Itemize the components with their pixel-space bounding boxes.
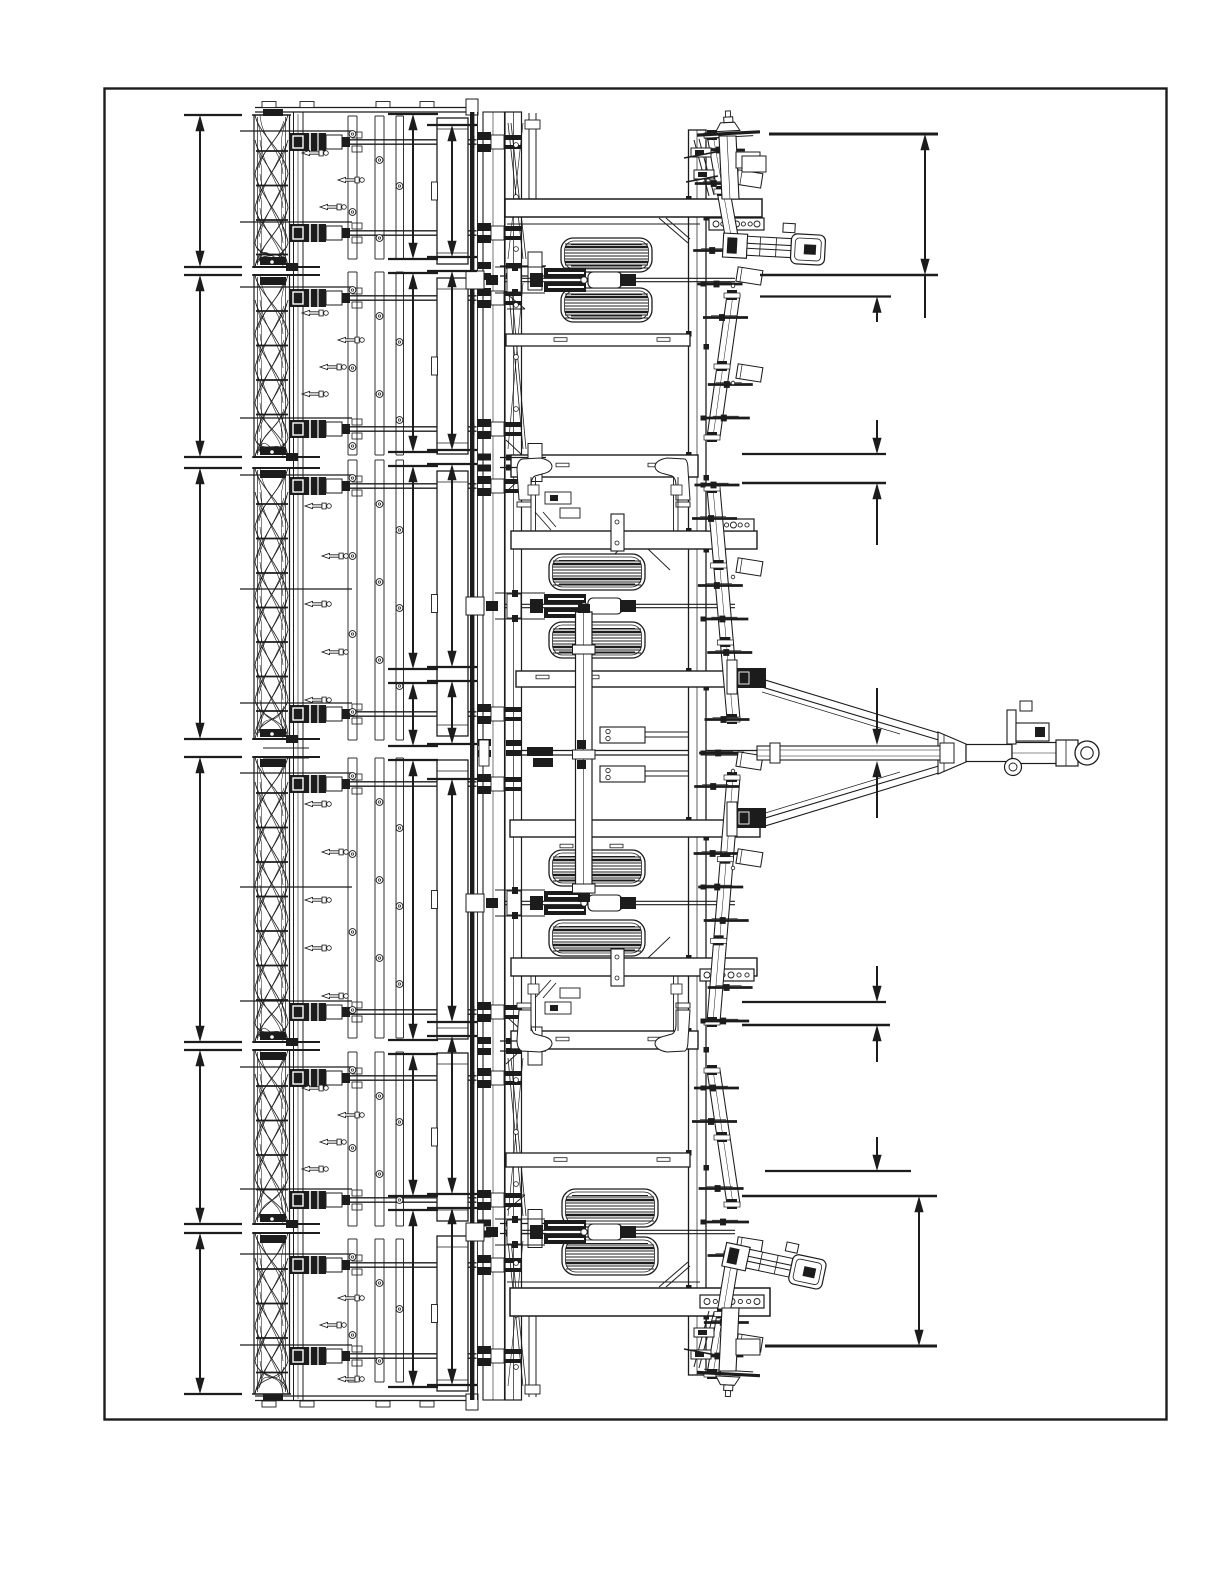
hitch jack — [1007, 710, 1016, 744]
clevis and ring — [1056, 740, 1078, 766]
spike tines — [302, 150, 319, 155]
tine bars — [347, 116, 349, 259]
inner dimension line B — [427, 124, 477, 126]
wing frame tubes — [437, 118, 468, 264]
wing lift links top — [528, 113, 530, 199]
front rail B — [505, 112, 522, 1400]
inter-beam parts — [545, 492, 571, 504]
hitch apex — [938, 732, 966, 774]
right small arrows — [873, 298, 881, 313]
basket carrier rails — [293, 112, 295, 1400]
right dimension bars — [769, 133, 938, 136]
gang mount bolt plates — [709, 218, 764, 230]
axle center posts — [576, 612, 593, 893]
bottom gang spindle bar — [694, 1311, 709, 1367]
disc scrapers — [736, 170, 763, 188]
transport tires — [561, 238, 652, 272]
hitch mount plates — [735, 668, 766, 688]
beam slots — [554, 338, 567, 342]
rolling basket lattice strip — [253, 115, 255, 267]
basket hinge hubs — [253, 266, 320, 268]
bottom end plate — [255, 1395, 475, 1397]
disc blades — [700, 149, 745, 152]
rail clamps — [477, 132, 491, 140]
top gang tube — [719, 136, 739, 199]
bottom coulter disc — [696, 1369, 760, 1398]
beam gussets — [659, 218, 688, 243]
walking axles — [505, 277, 735, 279]
disc gang bars — [707, 135, 740, 247]
main frame cross beams — [505, 199, 762, 217]
hinge rail clamps — [478, 262, 491, 269]
top fold cylinder — [722, 220, 826, 265]
hitch pole lower — [762, 772, 942, 827]
wing basket hangers — [508, 123, 523, 259]
right long dimension bottom — [915, 1197, 923, 1212]
main heavy rail — [470, 112, 474, 1400]
inner dimension line A — [388, 113, 438, 115]
page border frame — [105, 89, 1167, 1420]
wing lift links bottom — [528, 1316, 530, 1397]
gauge shoes — [517, 458, 552, 500]
right main rail — [689, 130, 707, 1375]
top gang spindle bar — [694, 140, 709, 196]
lift links — [530, 477, 532, 531]
center hinge row — [480, 750, 760, 752]
drawbar dimension arrows — [873, 729, 881, 744]
right long dimension top — [921, 135, 929, 150]
top end plate — [255, 107, 475, 109]
rank clamps — [289, 133, 326, 151]
wing hinge plates — [500, 265, 546, 267]
rear rail A — [483, 112, 505, 1400]
top coulter disc — [696, 109, 760, 138]
hitch pole upper — [762, 679, 942, 734]
telescoping tube — [757, 746, 953, 760]
bottom fold cylinder — [721, 1230, 829, 1290]
hanger arms — [240, 130, 352, 132]
left dimension ticks and arrows — [184, 114, 242, 116]
center clamp cluster — [600, 727, 645, 743]
bottom gang tube — [719, 1308, 739, 1371]
rank toolbars — [289, 139, 477, 141]
drawbar — [966, 745, 1012, 762]
